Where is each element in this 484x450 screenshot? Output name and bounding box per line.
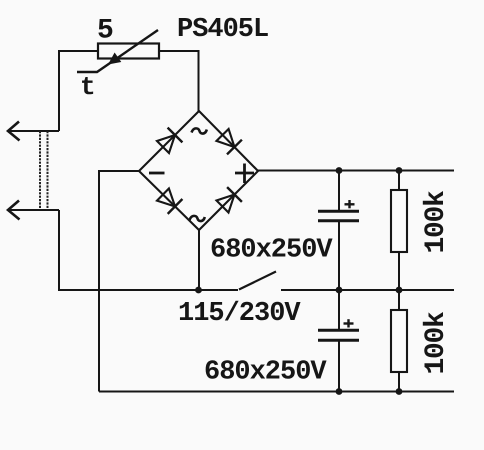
thermistor strike with bent foot <box>77 30 158 72</box>
svg-text:680x250V: 680x250V <box>204 358 327 388</box>
capacitor C2 plates <box>318 330 359 340</box>
diode D1 (left-to-top edge) <box>157 128 182 153</box>
capacitor C1 plates <box>318 211 359 220</box>
node dot top rail cap <box>336 167 343 174</box>
bridge diamond edges <box>139 111 258 230</box>
thermistor RT1 body <box>98 44 159 59</box>
svg-text:680x250V: 680x250V <box>210 236 333 266</box>
plus mark <box>235 164 254 184</box>
AC mark top ~ <box>192 128 207 133</box>
wire bottom rail <box>99 391 454 393</box>
wire bridge bottom down <box>198 230 200 290</box>
svg-text:5: 5 <box>97 16 114 47</box>
resistor R2 wires <box>398 290 400 310</box>
wire middle rail right <box>281 289 454 291</box>
AC mark bottom ~ <box>190 216 205 221</box>
svg-text:t: t <box>80 72 96 102</box>
capacitor C2 polarity + <box>344 319 354 327</box>
capacitor C1 polarity + <box>345 200 355 208</box>
svg-text:115/230V: 115/230V <box>178 299 301 329</box>
node junction bridge/ac2 <box>195 287 202 294</box>
connector double dotted line <box>40 131 48 210</box>
resistor R2 body <box>391 310 407 372</box>
resistor R1 body <box>391 190 407 252</box>
node dot mid rail cap <box>336 287 343 294</box>
arrow AC input 1 <box>8 122 20 141</box>
thermistor crossing wedge <box>108 53 121 65</box>
node dot mid rail res <box>396 287 403 294</box>
wire top rail <box>258 170 454 172</box>
minus mark <box>149 172 165 175</box>
wire thermistor right to bridge top <box>159 51 199 111</box>
diode D2 (top-to-right edge) <box>217 129 242 154</box>
switch 115/230V blade <box>239 272 276 290</box>
wire bridge minus to left vertical <box>99 171 139 392</box>
resistor R1 wires <box>398 171 400 191</box>
wire AC line 2 horizontal <box>8 209 59 211</box>
capacitor C1 wires <box>338 171 340 212</box>
node dot top rail res <box>396 167 403 174</box>
diode D4 (bottom-to-right edge) <box>217 187 242 212</box>
arrow AC input 2 <box>8 201 20 220</box>
wire AC2 down to middle rail <box>59 210 238 290</box>
svg-text:100k: 100k <box>421 190 452 254</box>
wire AC line 1 horizontal <box>8 130 59 132</box>
diode D3 (left-to-bottom edge) <box>157 189 182 214</box>
capacitor C2 wires <box>338 290 340 330</box>
wire top-left from thermistor to left vertical <box>59 51 98 131</box>
node dot bottom rail cap <box>336 388 343 395</box>
svg-text:100k: 100k <box>421 311 452 375</box>
svg-text:PS405L: PS405L <box>177 15 268 45</box>
node dot bottom rail res <box>396 388 403 395</box>
